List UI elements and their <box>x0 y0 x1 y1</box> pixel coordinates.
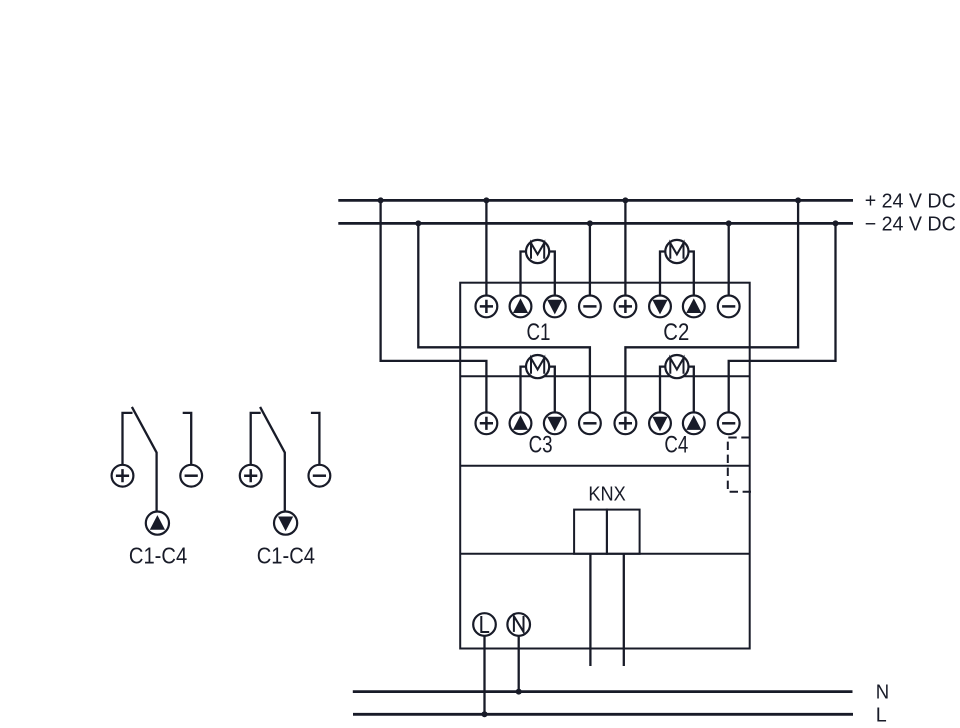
wire motor lead left <box>521 252 527 296</box>
terminal C1 minus <box>579 296 601 318</box>
terminal C4 down <box>649 412 671 434</box>
terminal C3 up <box>510 412 532 434</box>
+24V DC rail <box>338 199 853 202</box>
junction -24V/C3 <box>415 220 421 226</box>
terminal C4 up <box>683 412 705 434</box>
terminal C1 up <box>510 296 532 318</box>
junction -24V/C4 <box>833 220 839 226</box>
KNX terminal block right <box>607 510 640 554</box>
svg-text:C1-C4: C1-C4 <box>129 542 187 568</box>
wire motor lead right <box>689 252 694 296</box>
svg-text:C1-C4: C1-C4 <box>257 542 315 568</box>
switch down C1-C4 terminal arrow <box>274 511 297 534</box>
wire C3 - to -24V <box>418 223 590 412</box>
-24V DC rail <box>338 222 853 225</box>
wire motor lead right <box>549 367 555 413</box>
svg-text:C1: C1 <box>527 319 551 346</box>
junction -24V/C2 <box>726 220 732 226</box>
L mains rail <box>353 713 853 716</box>
junction -24V/C1 <box>587 220 593 226</box>
motor M <box>526 240 549 263</box>
switch down C1-C4 terminal plus <box>240 465 262 487</box>
switch up C1-C4 terminal plus <box>112 465 134 487</box>
actuator device outline <box>460 283 750 649</box>
switch up C1-C4 minus lead <box>183 413 192 464</box>
N mains rail <box>353 690 853 693</box>
junction +24V/C3 <box>378 197 384 203</box>
terminal C1 plus <box>476 296 498 318</box>
junction L <box>482 711 488 717</box>
svg-text:KNX: KNX <box>588 482 626 505</box>
terminal C3 minus <box>579 412 601 434</box>
svg-text:C2: C2 <box>663 319 689 346</box>
wire C2 - to -24V <box>728 223 730 295</box>
terminal C2 up <box>683 296 705 318</box>
svg-text:− 24 V DC: − 24 V DC <box>865 213 956 235</box>
wire C4 + to +24V <box>625 200 798 412</box>
divider below C1/C2 section <box>460 375 750 377</box>
switch up C1-C4 plus lead <box>123 413 133 464</box>
junction +24V/C1 <box>483 197 489 203</box>
wire motor lead left <box>660 252 665 296</box>
motor M <box>526 355 549 378</box>
divider below C3/C4 section <box>460 465 750 467</box>
divider below KNX section <box>460 553 750 555</box>
wire C4 - to -24V <box>729 223 836 412</box>
terminal C1 down <box>544 296 566 318</box>
svg-text:N: N <box>876 680 889 703</box>
switch up C1-C4 blade <box>132 407 157 512</box>
svg-text:+ 24 V DC: + 24 V DC <box>865 190 956 212</box>
switch down C1-C4 minus lead <box>311 413 320 464</box>
switch up C1-C4 terminal minus <box>180 465 202 487</box>
wire C1 - to -24V <box>589 223 591 295</box>
wire L to mains <box>483 637 485 715</box>
KNX terminal block left <box>574 510 607 554</box>
terminal C2 minus <box>718 296 740 318</box>
wire motor lead left <box>521 367 527 413</box>
wire C3 + to +24V <box>381 200 487 412</box>
terminal C3 plus <box>476 412 498 434</box>
svg-text:C4: C4 <box>664 431 688 458</box>
junction +24V/C4 <box>795 197 801 203</box>
terminal C2 plus <box>615 296 637 318</box>
wire motor lead right <box>689 367 694 413</box>
wire C2 + to +24V <box>624 200 626 295</box>
terminal C4 plus <box>615 412 637 434</box>
wire motor lead left <box>660 367 665 413</box>
switch up C1-C4 terminal arrow <box>146 511 169 534</box>
KNX bus wire + <box>589 554 591 666</box>
terminal C4 minus <box>718 412 740 434</box>
KNX bus wire - <box>623 554 625 666</box>
terminal C2 down <box>649 296 671 318</box>
junction N <box>516 689 522 695</box>
terminal C3 down <box>544 412 566 434</box>
svg-text:C3: C3 <box>529 431 553 458</box>
motor M <box>665 355 688 378</box>
wire motor lead right <box>549 252 555 296</box>
switch down C1-C4 plus lead <box>251 413 261 464</box>
switch down C1-C4 blade <box>260 407 285 512</box>
terminal L <box>473 613 496 636</box>
junction +24V/C2 <box>622 197 628 203</box>
dashed optional wire at C4 minus <box>728 438 753 492</box>
svg-text:L: L <box>876 704 887 727</box>
terminal N <box>507 613 530 636</box>
motor M <box>665 240 688 263</box>
switch down C1-C4 terminal minus <box>309 465 331 487</box>
wire C1 + to +24V <box>485 200 487 295</box>
wire N to mains <box>518 637 520 692</box>
